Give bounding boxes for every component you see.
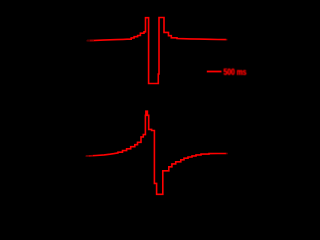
scale label: 500 ms xyxy=(223,67,246,77)
top trace fade-in at left xyxy=(87,40,91,42)
bottom trace fade-out at right xyxy=(226,153,228,155)
bottom trace xyxy=(86,111,226,194)
top trace fade-out at right xyxy=(226,39,228,41)
svg-text:500 ms: 500 ms xyxy=(224,67,247,77)
bottom trace fade-in at left xyxy=(86,155,90,157)
top trace: cross-correlogram style curve xyxy=(87,18,226,84)
scale bar xyxy=(207,71,222,73)
